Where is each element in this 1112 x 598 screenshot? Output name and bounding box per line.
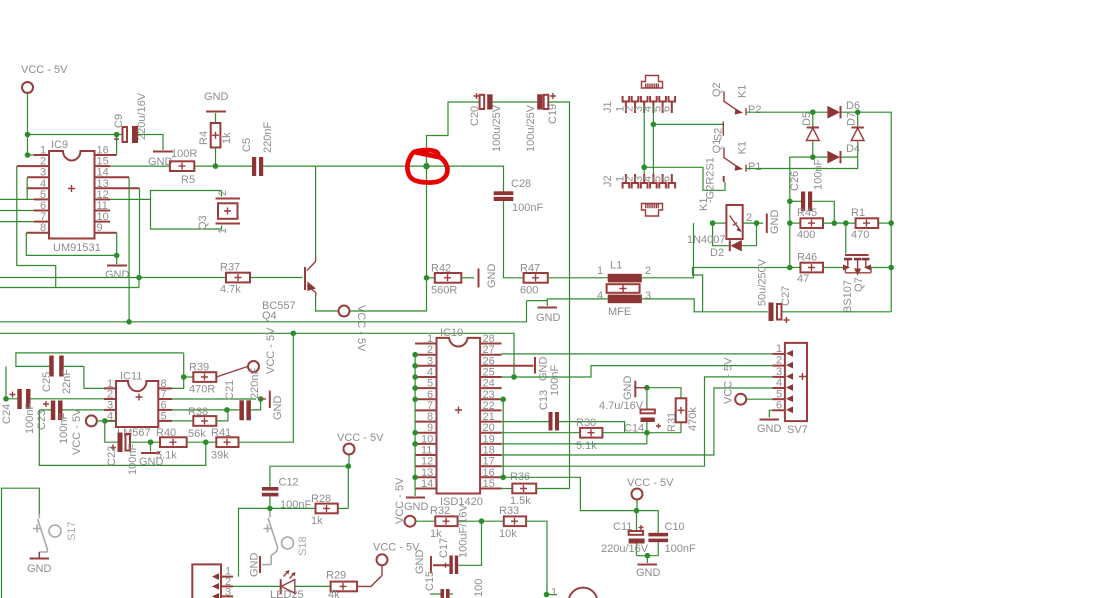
resistor R46 47 [790, 252, 823, 286]
wire IC9 pin2 down [17, 166, 56, 287]
svg-text:600: 600 [520, 285, 538, 297]
svg-text:C19: C19 [547, 104, 559, 124]
svg-text:100nF: 100nF [280, 499, 311, 511]
svg-text:26: 26 [483, 355, 495, 367]
supply VCC-5V (Q4 emitter) [339, 305, 368, 352]
wire stub to bottom part [547, 587, 558, 598]
svg-text:C5: C5 [241, 138, 253, 152]
svg-text:100uF/16V: 100uF/16V [458, 504, 470, 558]
connector SV7 [785, 343, 808, 436]
svg-text:-G2R2S1: -G2R2S1 [705, 157, 717, 203]
ground GND (C14) [622, 376, 647, 401]
svg-text:39k: 39k [211, 450, 229, 462]
svg-text:IC11: IC11 [120, 371, 142, 383]
wire gnd rail y290 to left edge [0, 287, 139, 289]
node pin16/C9 [114, 132, 120, 138]
wire pin16 to VCC node [502, 477, 636, 510]
capacitor C10 100nF [637, 511, 696, 556]
wire VCC down [348, 455, 350, 467]
svg-text:GND: GND [486, 264, 498, 289]
svg-text:3: 3 [427, 355, 433, 367]
node R46 left [787, 265, 793, 271]
wire LED to R29 [295, 585, 331, 587]
svg-text:S18: S18 [297, 536, 309, 556]
wire pin27 to SV7 pin1 [502, 353, 773, 355]
node bridge bottom-left [810, 154, 816, 160]
svg-text:P1: P1 [748, 161, 761, 173]
wire J1 pin4 to J2 pin4 [652, 105, 654, 174]
wire pin16 up to C9 net [116, 135, 118, 156]
svg-text:C9: C9 [113, 114, 125, 128]
node J2 pin3 junction [641, 165, 647, 171]
svg-text:18: 18 [483, 445, 495, 457]
inductor/transformer L1 MFE [597, 260, 651, 319]
node C14 top/gnd [644, 385, 650, 391]
ground GND (below L1 pin4) [536, 308, 561, 325]
node R38/pin6 [224, 407, 230, 413]
node R37 [136, 275, 142, 281]
svg-text:2: 2 [746, 212, 752, 224]
wire VCC to C9 line [28, 93, 123, 135]
svg-text:400: 400 [797, 229, 815, 241]
svg-text:5.1k: 5.1k [576, 440, 597, 452]
node R5/R4 [213, 163, 219, 169]
svg-text:1: 1 [427, 333, 433, 345]
diode D5 (vertical) [801, 112, 819, 157]
wire R42 to gnd [461, 277, 474, 279]
capacitor C15 (cut at bottom) [424, 571, 485, 598]
node J1 pin3 branch [641, 165, 647, 171]
wire IC11 pin8 to R39 [172, 377, 184, 388]
wire vcc node left to C12 [270, 466, 348, 487]
IC IC9 UM91531 [49, 139, 101, 254]
ground GND (below IC9) [105, 255, 130, 281]
ground GND (S17) [27, 552, 52, 575]
ground GND (IC10 pin26) [535, 357, 550, 382]
wire L1 pin4 to gnd [547, 299, 608, 306]
capacitor C14 4.7u/16V [599, 388, 661, 435]
supply VCC-5V (C11/C10) [627, 477, 674, 500]
svg-text:R29: R29 [326, 570, 346, 582]
wire IC9 pin9 down to GND [116, 233, 118, 256]
resistor R40 5.1k [156, 427, 187, 462]
wire C5 to center junction [263, 165, 426, 167]
J1 pin numbers [615, 106, 673, 112]
svg-text:VCC - 5V: VCC - 5V [265, 327, 277, 374]
svg-text:470k: 470k [687, 407, 699, 431]
ground GND (relay) [767, 210, 781, 235]
node R32/R33/C17 [479, 518, 485, 524]
svg-text:6: 6 [661, 106, 673, 112]
relay contact Q1/K1/P1 [711, 139, 762, 173]
wire R40 to R41 [187, 441, 217, 443]
resistor R31 470k (vertical) [647, 388, 699, 433]
capacitor C25 22nF [41, 356, 73, 395]
wire VCC circle to center vertical [350, 278, 427, 311]
node R45/C26 [832, 220, 838, 226]
supply VCC-5V (top left) [21, 64, 68, 93]
wire C23 down to R40/R41 node [39, 410, 206, 466]
svg-text:100R: 100R [171, 148, 197, 160]
IC9 left pin numbers [40, 145, 46, 235]
wire IC9 pin7 from left edge [0, 221, 34, 223]
svg-text:IC10: IC10 [440, 327, 463, 339]
svg-text:GND: GND [204, 91, 229, 103]
wire center vertical C20 riser [427, 102, 480, 166]
resistor R29 4k [326, 570, 357, 598]
svg-text:C28: C28 [511, 178, 531, 190]
svg-text:100nF: 100nF [813, 159, 825, 190]
wire pin4 down to C22 [105, 421, 118, 442]
svg-text:VCC - 5V: VCC - 5V [355, 305, 367, 352]
svg-text:1k: 1k [311, 515, 323, 527]
svg-text:56k: 56k [188, 428, 206, 440]
svg-text:2: 2 [645, 265, 651, 277]
capacitor C24 100nF [1, 389, 36, 434]
relay coil K1 -G2R2S1 [698, 157, 752, 239]
bus wire 2 (long horizontal) [0, 333, 514, 377]
node R1 right [888, 220, 894, 226]
svg-text:14: 14 [421, 478, 433, 490]
svg-text:L1: L1 [610, 260, 622, 272]
svg-text:C27: C27 [780, 286, 792, 306]
svg-text:D2: D2 [710, 247, 724, 259]
IC9 right pin stubs 16-9 [95, 155, 140, 233]
wire node down-left to edge [138, 278, 140, 288]
wire L1 pin2 up to relay coil net [642, 223, 694, 278]
bus wire 1 (long horizontal) [0, 301, 527, 322]
svg-text:R46: R46 [797, 252, 817, 264]
svg-text:C21: C21 [224, 380, 236, 400]
node relay coil left [710, 220, 716, 226]
capacitor C28 100nF [494, 178, 544, 214]
svg-text:GND: GND [769, 210, 781, 235]
svg-text:Q7: Q7 [853, 277, 865, 292]
resistor R5 100R [110, 148, 216, 186]
svg-text:C12: C12 [279, 477, 299, 489]
diode D4 [813, 143, 860, 164]
svg-text:1: 1 [597, 265, 603, 277]
wire R28 right up [338, 507, 349, 509]
svg-text:4: 4 [597, 290, 603, 302]
wire Q4 emitter to VCC circle [316, 296, 338, 311]
svg-text:4.7u/16V: 4.7u/16V [599, 400, 644, 412]
node bus pin10 [412, 441, 418, 447]
node bus pin13 [412, 475, 418, 481]
IC10 left pin numbers [421, 333, 433, 490]
transistor Q4 BC557 [262, 257, 316, 322]
svg-text:6: 6 [661, 176, 673, 182]
wire S17 feed (left edge) [2, 488, 40, 598]
node pin25/bus2 [511, 374, 517, 380]
wire junction to C28 [427, 166, 504, 192]
node R40/R41 [203, 439, 209, 445]
svg-text:50u/250V: 50u/250V [757, 258, 769, 306]
svg-text:R1: R1 [851, 207, 865, 219]
wire S18 to gnd [262, 556, 271, 565]
svg-text:VCC - 5V: VCC - 5V [71, 408, 83, 455]
svg-text:3: 3 [645, 290, 651, 302]
IC10 right pin numbers [483, 333, 495, 490]
diode D6 [813, 100, 860, 119]
svg-text:Q1: Q1 [711, 139, 723, 154]
svg-text:220u/16V: 220u/16V [136, 92, 148, 140]
node C14 bottom [644, 430, 650, 436]
resistor R1 470 [851, 207, 878, 241]
IC IC11 LM567 [116, 371, 158, 440]
svg-text:R41: R41 [211, 427, 231, 439]
ground GND (above R4) [204, 91, 229, 112]
ground GND (right of C9) [148, 152, 173, 169]
capacitor C23 100nF (pin3) [36, 401, 104, 445]
svg-text:100nF: 100nF [127, 444, 139, 475]
svg-text:1k: 1k [221, 132, 233, 144]
IC9 left pin stubs 1-8 [17, 155, 49, 233]
resistor R30 5.1k (pin20) [502, 417, 603, 452]
transistor Q7 BS107 (MOSFET) [842, 223, 891, 313]
J2 pin numbers [615, 176, 673, 182]
wire C20 to C19 [493, 101, 538, 103]
wire C25 loop to IC11 pin1 [16, 353, 184, 389]
svg-text:100nF: 100nF [665, 543, 696, 555]
wire bus1 stub to gnd net [527, 300, 548, 302]
ground GND (SV7) [757, 420, 782, 436]
svg-text:C20: C20 [469, 106, 481, 126]
ground GND (C11/C10) [636, 556, 661, 579]
connector J2 (RJ jack below) [602, 175, 663, 216]
connector J1 (RJ jack) [602, 76, 663, 114]
svg-text:1.5k: 1.5k [510, 495, 531, 507]
wire R33 down to bottom [526, 521, 547, 594]
supply VCC-5V (R29) [373, 542, 420, 566]
svg-text:5.1k: 5.1k [156, 450, 177, 462]
svg-text:5: 5 [427, 378, 433, 390]
wire pin18 to SV7 pin3 [502, 388, 773, 455]
svg-text:470R: 470R [189, 384, 215, 396]
svg-text:SV7: SV7 [787, 424, 808, 436]
svg-text:D7: D7 [846, 112, 858, 126]
svg-text:100nF: 100nF [58, 413, 70, 444]
svg-text:R40: R40 [156, 427, 176, 439]
wire C12 node to connector pin1 [239, 508, 270, 576]
svg-text:100nF: 100nF [549, 365, 561, 396]
svg-text:IC9: IC9 [51, 139, 68, 151]
svg-text:VCC - 5V: VCC - 5V [394, 477, 406, 524]
svg-text:D5: D5 [801, 112, 813, 126]
wire C17 riser [458, 521, 481, 565]
capacitor C27 50u/250V [757, 258, 793, 323]
part at bottom edge (cut) [569, 588, 597, 598]
diode D2 1N4007 [687, 223, 757, 259]
node IC9 gnd [114, 253, 120, 259]
svg-text:8: 8 [40, 222, 46, 234]
node bus pin2 [412, 352, 418, 358]
resistor R37 4.7k [0, 262, 303, 296]
svg-text:D4: D4 [846, 143, 860, 155]
wire IC11 pin6 to C21 [172, 409, 239, 411]
node R42 [424, 275, 430, 281]
svg-text:GND: GND [404, 501, 429, 513]
svg-text:220nF: 220nF [249, 368, 261, 399]
svg-text:100nF: 100nF [24, 403, 36, 434]
wire C12 node to R28 [270, 507, 316, 509]
IC11 right pin numbers [161, 378, 167, 423]
resistor R41 39k [211, 427, 239, 462]
capacitor C5 220nF [216, 122, 275, 176]
resistor R36 1.5k [502, 471, 537, 507]
node VCC caps [634, 508, 640, 514]
wire R45 to R1 [823, 222, 856, 224]
node R36/pin16 bus top [500, 475, 506, 481]
svg-text:R5: R5 [181, 174, 195, 186]
svg-text:UM91531: UM91531 [53, 242, 101, 254]
diode D7 (vertical) [846, 112, 865, 157]
node center junction (red-circled) [423, 163, 429, 169]
wire P2 to bridge [746, 111, 813, 113]
node coil right [754, 220, 760, 226]
connector bottom-left (cut) [192, 564, 233, 598]
capacitor C12 100nF [262, 477, 312, 512]
LED LED25 [270, 570, 304, 598]
switch S18 [264, 511, 310, 556]
svg-text:Q4: Q4 [262, 310, 277, 322]
supply VCC-5V (C12/R28) [337, 432, 384, 455]
ground GND (C17) [414, 550, 431, 575]
svg-text:6: 6 [776, 399, 782, 411]
svg-text:9: 9 [97, 222, 103, 234]
wire C22 to R40 [130, 441, 160, 443]
wire IC10 left ground bus [414, 355, 416, 496]
svg-text:R31: R31 [666, 412, 678, 432]
resistor R39 470R [184, 362, 217, 396]
ground GND (right of R42) [479, 264, 499, 289]
node pin7/C21 [258, 396, 264, 402]
ground GND (S18) [249, 553, 261, 578]
wire VCC to SV7 pin5 [746, 398, 772, 400]
node R1 left / Q7 gate [843, 220, 849, 226]
svg-text:470: 470 [851, 229, 869, 241]
supply VCC-5V (R32 input) [394, 477, 416, 527]
wire C27 right to rail [782, 311, 892, 313]
svg-text:VCC - 5V: VCC - 5V [337, 432, 384, 444]
svg-text:11: 11 [421, 445, 432, 457]
svg-text:9: 9 [427, 422, 433, 434]
node bottom pin1 [544, 592, 550, 598]
svg-text:GND: GND [105, 269, 130, 281]
svg-text:Q2: Q2 [711, 82, 723, 97]
resistor R38 56k [172, 406, 228, 440]
resistor R47 600 [520, 263, 548, 297]
svg-text:LED25: LED25 [270, 589, 304, 598]
wire C9 to ground [138, 135, 163, 151]
wire R29 to VCC [357, 566, 382, 587]
wire pin19 to C14 node [502, 433, 647, 444]
svg-text:4: 4 [776, 377, 782, 389]
wire SV7 pin6 to gnd [769, 410, 772, 417]
svg-text:560R: 560R [431, 285, 457, 297]
svg-text:GND: GND [757, 423, 782, 435]
svg-text:VCC - 5V: VCC - 5V [627, 477, 674, 489]
capacitor C26 100nF [789, 159, 834, 224]
wire VCC to caps [636, 500, 638, 511]
switch S17 [33, 514, 78, 558]
node bus1/pin14 [126, 319, 132, 325]
node J1 pin4 branch [651, 122, 657, 128]
svg-text:100u/25V: 100u/25V [525, 104, 537, 152]
svg-text:C15: C15 [424, 571, 436, 591]
wire P1 to bridge lower right [746, 157, 858, 168]
SV7 pin stubs [772, 354, 785, 410]
svg-text:R38: R38 [188, 406, 208, 418]
svg-text:C23: C23 [36, 410, 48, 430]
svg-text:R37: R37 [220, 262, 240, 274]
svg-text:C10: C10 [665, 521, 685, 533]
svg-text:K1: K1 [736, 141, 748, 154]
capacitor C11 220u/16V [601, 511, 649, 556]
node C24 [3, 396, 9, 402]
svg-text:S17: S17 [66, 521, 78, 541]
crystal Q3 [110, 190, 240, 234]
node R39 left [181, 374, 187, 380]
svg-text:4k: 4k [328, 589, 340, 598]
wire R41 up to bus2 [239, 333, 294, 442]
svg-text:20: 20 [483, 422, 495, 434]
svg-text:C17: C17 [438, 538, 450, 558]
svg-text:J2: J2 [602, 175, 614, 187]
svg-text:C22: C22 [106, 446, 118, 466]
wire C24 line (pin2) [6, 366, 104, 398]
node C12/R28 vcc [346, 463, 352, 469]
svg-text:16: 16 [483, 467, 495, 479]
J1 pin contacts 1-6 [623, 96, 676, 113]
IC11 right pin stubs [158, 388, 172, 421]
svg-text:VCC - 5V: VCC - 5V [373, 542, 420, 554]
svg-text:GND: GND [636, 567, 661, 579]
node VCC/C9 [25, 132, 31, 138]
svg-text:22: 22 [483, 400, 495, 412]
svg-text:R28: R28 [311, 493, 331, 505]
wire IC9 pin5 from left edge [0, 198, 34, 200]
wire pin17 to SV7 pin4 [502, 377, 773, 466]
SV7 pin numbers [776, 343, 782, 411]
svg-text:C11: C11 [613, 521, 632, 533]
capacitor C21 220nF [224, 368, 261, 421]
IC9 right pin numbers [97, 145, 109, 235]
wire center vertical down to R42 [426, 166, 428, 278]
wire R39 node up to C25 loop [183, 353, 185, 377]
capacitor C22 100nF [106, 433, 139, 476]
supply VCC-5V (R39) [248, 327, 277, 374]
IC10 left pin stubs [415, 344, 436, 489]
svg-text:C14: C14 [624, 423, 644, 435]
ground GND (IC10 bus) [404, 498, 429, 514]
svg-text:Q3: Q3 [197, 215, 209, 230]
resistor R42 560R [427, 263, 462, 297]
IC IC10 ISD1420 [437, 327, 483, 508]
wire pin23-pin16 bus [502, 399, 504, 477]
svg-text:GND: GND [622, 376, 634, 401]
svg-text:1: 1 [776, 343, 782, 355]
wire VCC down to IC9 pin1 [28, 135, 50, 156]
wire bridge bottom-left to C26 rail [790, 157, 813, 267]
wire R39 diagonal to VCC [216, 367, 247, 378]
wire L1 pin3 to C27 line [642, 299, 768, 312]
wire J1 pin3 to J2 pin3 [643, 105, 645, 174]
node bus pin4 [412, 374, 418, 380]
resistor R28 1k [311, 493, 338, 527]
svg-text:1N4007: 1N4007 [687, 234, 726, 246]
node C26 left [787, 199, 793, 205]
